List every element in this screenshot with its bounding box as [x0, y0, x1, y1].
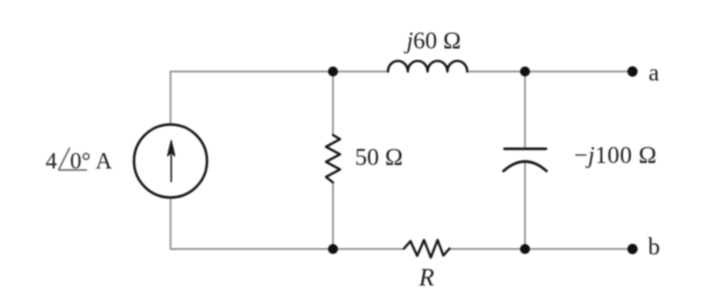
svg-text:4: 4 — [46, 149, 58, 174]
wire: bottom rail right segment (resistor R to terminal b) — [450, 248, 633, 250]
wire: top rail right segment (inductor to terminal a) — [467, 71, 633, 73]
current source I1 arrow — [168, 140, 175, 181]
node: junction dot bottom of 50 ohm branch — [328, 244, 338, 254]
wire: top rail left segment (source top to inductor) — [171, 72, 389, 125]
svg-text:−j100 Ω: −j100 Ω — [574, 143, 657, 169]
node: terminal b dot — [627, 244, 637, 254]
svg-text:j60 Ω: j60 Ω — [404, 29, 462, 55]
node: junction dot top of capacitor branch — [520, 67, 530, 77]
wire: upper lead of capacitor — [524, 72, 526, 149]
svg-text:0°: 0° — [70, 149, 91, 174]
svg-text:R: R — [418, 265, 434, 292]
wire: bottom rail left segment (source bottom to resistor R) — [171, 198, 405, 250]
capacitor -j100 ohm top plate — [505, 148, 547, 151]
wire: lower lead of 50 ohm resistor — [332, 183, 334, 250]
svg-text:A: A — [96, 149, 113, 174]
svg-text:b: b — [648, 235, 660, 261]
resistor R (horizontal zigzag) — [404, 240, 450, 258]
current source I1 circle — [134, 125, 207, 198]
node: junction dot bottom of capacitor branch — [520, 244, 530, 254]
node: terminal a dot — [627, 66, 637, 76]
svg-text:a: a — [649, 61, 660, 87]
svg-text:50 Ω: 50 Ω — [355, 145, 403, 171]
node: junction dot top of 50 ohm branch — [328, 67, 338, 77]
inductor j60 ohm (four humps) — [388, 61, 467, 72]
label: source value 4 angle 0 A — [46, 148, 113, 174]
wire: lower lead of capacitor — [524, 163, 526, 250]
resistor 50 ohm (vertical zigzag) — [326, 135, 340, 183]
capacitor -j100 ohm bottom curved plate — [504, 162, 547, 172]
wire: upper lead of 50 ohm resistor — [332, 72, 334, 136]
